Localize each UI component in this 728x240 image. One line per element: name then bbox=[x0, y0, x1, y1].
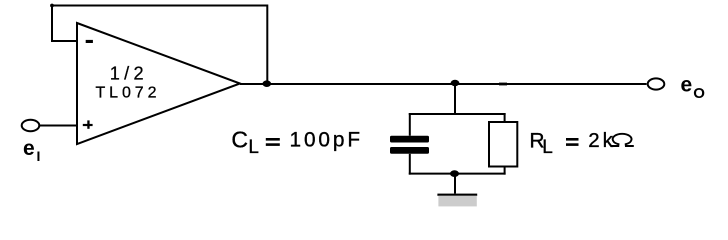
wire output line bbox=[240, 83, 647, 85]
wire top rail of load network bbox=[409, 113, 506, 115]
capacitor CL plates bbox=[390, 136, 429, 154]
svg-text:I: I bbox=[37, 148, 41, 164]
corner nub top-left of loop bbox=[50, 4, 54, 8]
op-amp minus input label bbox=[86, 40, 93, 43]
wire resistor bottom lead bbox=[504, 167, 506, 175]
wire stem from output line to load network bbox=[454, 84, 456, 114]
output terminal circle bbox=[648, 78, 665, 89]
input terminal circle bbox=[22, 120, 40, 131]
svg-text:e: e bbox=[681, 74, 693, 97]
wire feedback loop from inverting input to output bbox=[52, 6, 267, 85]
svg-text:O: O bbox=[693, 85, 705, 102]
wire resistor top lead bbox=[504, 113, 506, 122]
node eO label bbox=[681, 74, 706, 102]
wire bottom rail of load network bbox=[409, 173, 506, 175]
svg-text:2k: 2k bbox=[588, 129, 615, 152]
junction ground node bbox=[450, 170, 459, 177]
wire input to plus bbox=[39, 125, 77, 127]
svg-text:L: L bbox=[542, 137, 553, 158]
svg-text:L: L bbox=[248, 137, 259, 158]
capacitor value label CL = 100pF bbox=[231, 127, 363, 158]
op-amp U1 triangle bbox=[77, 23, 240, 144]
junction load node bbox=[451, 80, 460, 86]
svg-text:1/2: 1/2 bbox=[110, 63, 148, 83]
resistor RL body bbox=[489, 122, 517, 167]
minus polarity dash on wire bbox=[499, 83, 507, 86]
svg-text:C: C bbox=[231, 127, 248, 153]
svg-text:TL072: TL072 bbox=[96, 85, 161, 102]
node eI label bbox=[23, 137, 40, 164]
wire ground stem bbox=[454, 174, 456, 194]
wire capacitor bottom lead bbox=[409, 154, 411, 175]
svg-text:e: e bbox=[23, 137, 35, 160]
resistor value label RL = 2kOhm bbox=[529, 129, 633, 158]
wire capacitor top lead bbox=[409, 113, 411, 136]
junction feedback node bbox=[263, 80, 272, 87]
ground symbol bbox=[437, 194, 477, 207]
op-amp plus input label bbox=[83, 120, 93, 128]
svg-text:100pF: 100pF bbox=[290, 129, 363, 152]
